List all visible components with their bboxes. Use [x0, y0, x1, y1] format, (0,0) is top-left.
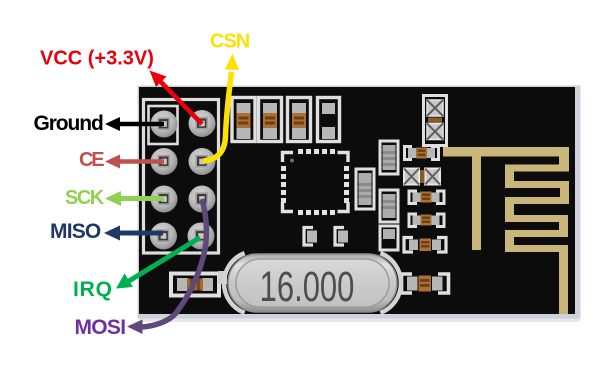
- capacitor C2: [259, 98, 282, 142]
- top pads: [281, 149, 349, 215]
- PCB edge: [138, 86, 581, 319]
- pin Ground: [151, 111, 178, 138]
- antenna bar B2: [505, 165, 569, 172]
- svg-text:16.000: 16.000: [260, 262, 355, 310]
- inductor L1: [380, 141, 398, 174]
- inductor L2: [356, 169, 374, 209]
- bottom pads: [298, 210, 303, 215]
- pin1 box: [149, 106, 178, 144]
- arrow MOSI: [127, 199, 206, 334]
- inductor L3: [380, 190, 398, 222]
- footprint pads C4: [318, 98, 340, 142]
- crystal Y1 rim arcs: [224, 253, 245, 313]
- arrow Ground: [105, 117, 164, 131]
- corner brackets: [283, 153, 294, 163]
- X caps pair: [404, 169, 440, 185]
- footprint V4: [380, 226, 398, 250]
- header outline: [144, 100, 219, 254]
- arrow IRQ: [116, 238, 200, 289]
- svg-text:VCC (+3.3V): VCC (+3.3V): [40, 48, 154, 70]
- antenna vert b: [505, 172, 514, 182]
- antenna vert e: [559, 222, 568, 230]
- arrow SCK: [105, 191, 164, 206]
- svg-text:CE: CE: [79, 149, 104, 171]
- pin VCC: [189, 110, 216, 137]
- pad left of crystal: [218, 271, 227, 284]
- antenna vert c: [560, 188, 569, 197]
- antenna vert d: [505, 204, 514, 215]
- pin MOSI: [189, 186, 216, 213]
- svg-text:IRQ: IRQ: [73, 278, 113, 301]
- antenna vert f: [505, 237, 514, 245]
- antenna bar B4: [505, 197, 569, 204]
- PCB board: [139, 87, 575, 314]
- resistor R6 bottom-left: [171, 274, 219, 296]
- antenna feed bar: [443, 147, 569, 157]
- svg-text:CSN: CSN: [210, 31, 250, 53]
- resistor R4: [404, 238, 446, 253]
- svg-text:MOSI: MOSI: [75, 316, 126, 339]
- pin SCK: [151, 186, 178, 213]
- antenna bar B5: [505, 215, 568, 222]
- antenna stub T: [472, 156, 481, 250]
- antenna vert a: [559, 156, 569, 165]
- crystal Y1: [228, 254, 397, 312]
- pin CE: [151, 148, 178, 175]
- arrow MISO: [104, 226, 163, 241]
- X caps stack: [424, 96, 447, 146]
- pin IRQ: [188, 223, 215, 250]
- arrow CE: [105, 155, 164, 169]
- resistor R3: [409, 214, 444, 227]
- antenna bar B6: [505, 230, 568, 237]
- antenna bar B3: [505, 181, 569, 188]
- op IC U1 outline pads: [281, 149, 349, 215]
- right pads: [344, 166, 349, 171]
- antenna tail vert: [559, 252, 568, 314]
- resistor R2: [409, 191, 444, 204]
- pin MISO: [150, 223, 177, 250]
- svg-text:Ground: Ground: [34, 112, 103, 135]
- pads below IC: [304, 228, 348, 246]
- arrow VCC: [150, 71, 203, 125]
- resistor R1: [405, 147, 439, 160]
- capacitor C1: [232, 98, 255, 142]
- svg-text:SCK: SCK: [65, 187, 105, 209]
- arrow CSN: [203, 54, 239, 162]
- capacitor C3: [288, 98, 311, 142]
- pin CSN: [189, 148, 216, 175]
- antenna bar B7: [505, 245, 568, 252]
- resistor R5: [402, 274, 449, 293]
- left pads: [281, 166, 286, 171]
- svg-text:MISO: MISO: [50, 220, 101, 243]
